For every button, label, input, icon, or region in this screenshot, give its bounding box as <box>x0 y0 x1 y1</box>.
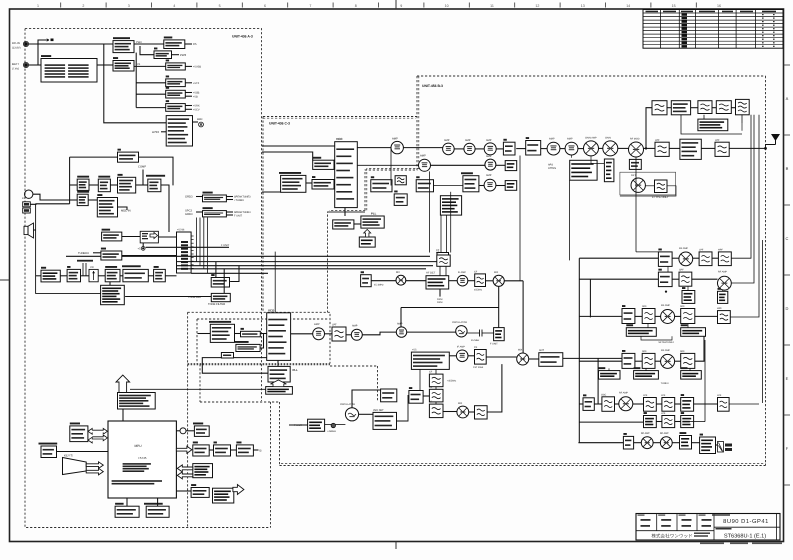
wire mpu-buzzer <box>176 430 180 432</box>
block ALC AMP <box>98 176 110 192</box>
svg-text:AMP: AMP <box>486 174 492 177</box>
svg-text:+TUNE3: +TUNE3 <box>234 199 244 202</box>
wire cfs12 <box>435 387 437 390</box>
arrow keys-mpu <box>86 462 103 475</box>
wire md2 loop <box>681 115 742 134</box>
junction antenna junction <box>764 147 767 150</box>
svg-text:45 MHz: 45 MHz <box>471 339 480 342</box>
svg-text:AMP: AMP <box>567 138 573 141</box>
wire mix-c7 <box>406 280 426 282</box>
filter r4 f1 <box>642 353 655 368</box>
svg-text:15: 15 <box>672 4 676 8</box>
block spd tune <box>394 191 407 206</box>
block Q107 buffer <box>416 176 433 192</box>
filter r1 f2 <box>718 252 731 266</box>
mix r2 rf amp <box>718 276 732 290</box>
wire r5b right link <box>689 421 705 423</box>
wire r4 c <box>675 360 681 362</box>
wire to DC-DC <box>134 43 164 45</box>
wire osc up <box>352 390 381 408</box>
svg-text:4: 4 <box>173 4 175 8</box>
block EEPROM <box>70 423 88 442</box>
filter ant lpf <box>715 142 729 156</box>
filter rx vco filt <box>332 327 346 341</box>
wire driver out <box>253 449 258 451</box>
svg-text:LPS3: LPS3 <box>152 130 159 134</box>
wire branch B <box>38 40 46 65</box>
svg-text:SPF: SPF <box>680 350 685 353</box>
det group rect <box>620 172 676 195</box>
wire tuned3 in <box>93 252 101 254</box>
block sample filter TX <box>279 172 306 192</box>
amp if amp2 <box>456 350 468 362</box>
wire bus 6 <box>191 272 268 274</box>
block low data clock RX <box>266 387 293 395</box>
block r1 sw <box>658 249 672 267</box>
block STEP ANALOG <box>214 442 231 457</box>
wire buzzer-spd <box>186 430 194 432</box>
wire X4 down <box>139 157 174 185</box>
amp TX amp 1 <box>391 141 403 153</box>
wire r6 d <box>692 442 700 444</box>
block Q101 <box>505 181 517 191</box>
wire sw-vco <box>333 183 336 185</box>
wire left audio vertical <box>69 157 71 204</box>
wire to Q714 <box>136 107 166 109</box>
wire r5b b <box>675 421 681 423</box>
wire r5b a <box>656 421 662 423</box>
wire BATT to charge <box>29 64 41 66</box>
svg-text:LPF: LPF <box>715 139 720 142</box>
wire s714 drop a <box>440 215 442 252</box>
LED symbol <box>199 122 204 127</box>
wire cfs23 <box>435 402 437 404</box>
block +5717 tone filter <box>211 293 230 301</box>
amp TX driver c <box>484 143 496 155</box>
block +5761 <box>154 266 166 282</box>
dashed RF unit top <box>417 75 766 77</box>
wire r1 b <box>693 257 699 259</box>
svg-text:PW3: PW3 <box>136 41 142 44</box>
wire dcamp2 in <box>196 211 203 213</box>
wire r5 g <box>729 403 759 405</box>
svg-text:MIX: MIX <box>518 349 523 352</box>
block MUTE SW <box>77 176 89 191</box>
wire vco-amp <box>291 333 313 335</box>
svg-text:+5CV: +5CV <box>193 109 200 112</box>
block ALC det <box>570 160 597 180</box>
svg-text:AMP: AMP <box>465 139 471 142</box>
wire to Q710 <box>134 65 166 67</box>
wire in sf <box>198 333 211 335</box>
svg-text:CF: CF <box>474 346 478 349</box>
svg-text:45.1MHz: 45.1MHz <box>374 284 384 287</box>
wire alc-mod <box>110 184 117 186</box>
wire lcd-step <box>209 449 213 451</box>
wire f4 down <box>741 115 743 123</box>
wire 5716 out <box>230 266 239 282</box>
wire r5 a <box>594 403 602 405</box>
wire pwr-amp <box>148 275 153 277</box>
svg-text:BATT: BATT <box>12 62 19 66</box>
wire r4 b <box>655 360 661 362</box>
wire bus 3 <box>177 261 441 263</box>
wire lim-mic <box>88 199 97 201</box>
block MOD IC <box>118 174 136 193</box>
wire det up <box>396 395 408 421</box>
svg-text:9: 9 <box>400 4 402 8</box>
wire tx-if drop a <box>429 171 431 252</box>
svg-text:AMP: AMP <box>486 155 492 158</box>
block r5b d <box>681 412 694 428</box>
filter r3 lpf <box>718 311 731 324</box>
wire r1 feed <box>579 257 658 259</box>
wire amp-ic <box>165 275 176 277</box>
wire mod-pre <box>136 184 148 186</box>
wire dcamp1 out b <box>226 199 233 201</box>
svg-text:1ST 455k: 1ST 455k <box>473 366 484 369</box>
amp TX amp 4 <box>485 159 496 170</box>
amp TX driver b <box>464 143 475 154</box>
svg-text:COMP: COMP <box>138 166 146 169</box>
wire bus to 5717 <box>223 269 225 294</box>
amp rx vco amp <box>313 328 325 340</box>
block apc small <box>604 159 614 182</box>
filter det lpf <box>655 180 668 193</box>
wire tone alk in <box>125 296 211 298</box>
mix mix 2nd feed <box>493 275 504 286</box>
svg-text:+455kHz: +455kHz <box>447 379 457 382</box>
wire ic-cfs1 <box>435 369 437 374</box>
wire r3 a <box>635 315 642 317</box>
svg-text:MDE-IN: MDE-IN <box>121 210 131 213</box>
wire c7-ifamp <box>449 280 458 282</box>
svg-text:+5B: +5B <box>193 95 198 98</box>
wire det-lpf <box>645 185 654 187</box>
svg-text:C: C <box>786 236 789 241</box>
wire jack <box>30 203 69 206</box>
wire ifamp2-cf3 <box>468 355 475 357</box>
wire feeder 3 <box>730 115 759 317</box>
block AF note box <box>101 285 125 304</box>
cap sym2 <box>325 423 346 427</box>
svg-text:455kHz: 455kHz <box>474 289 483 292</box>
svg-text:+55: +55 <box>412 349 417 352</box>
mix mix 1st <box>396 275 406 285</box>
svg-text:RF AMP: RF AMP <box>679 247 688 250</box>
block gps note <box>698 119 728 131</box>
wire amp alc <box>571 155 573 158</box>
filter r5 lpf2 <box>662 398 675 412</box>
filter cf stack 2 <box>429 389 443 402</box>
wire r5 d <box>656 403 662 405</box>
wire vco-pll <box>344 208 346 216</box>
wire dcamp2 out a <box>226 211 233 213</box>
wire vco-amp1 <box>357 147 391 149</box>
wire speaker stub <box>34 229 36 231</box>
wire bus 4 <box>177 265 434 267</box>
block Q713 <box>166 87 186 98</box>
block r5 b1 <box>583 394 594 410</box>
svg-text:RF AMP: RF AMP <box>718 271 727 274</box>
wire md-pll <box>354 223 361 225</box>
speaker <box>24 223 34 238</box>
block LED control <box>166 116 192 146</box>
wire drv c-sw <box>496 148 505 150</box>
program note arrow <box>116 375 130 393</box>
svg-text:UNIT-456 B-3: UNIT-456 B-3 <box>422 84 443 88</box>
svg-text:RF AMP: RF AMP <box>661 349 670 352</box>
wire rx feed drop <box>519 156 521 281</box>
svg-text:12: 12 <box>535 4 539 8</box>
wire cfs3-mix4 <box>443 411 457 413</box>
dashed VCO inner top <box>197 318 329 320</box>
wire COMP <box>142 170 144 186</box>
mix det circle <box>631 178 645 192</box>
wire r4 t1 <box>608 368 610 370</box>
svg-text:TONE FILTER: TONE FILTER <box>208 303 225 306</box>
jack box 1 <box>23 202 31 207</box>
dashed step left <box>199 364 201 402</box>
block sw det small <box>629 159 641 169</box>
mix mix r1 <box>584 141 599 156</box>
wire mod-lpf <box>644 147 656 149</box>
svg-text:IF AMP: IF AMP <box>457 346 465 349</box>
wire +5 node <box>142 243 144 247</box>
junction BATT terminal <box>24 63 28 67</box>
wire cf3-mix <box>486 356 517 358</box>
wire Q710 out <box>185 65 192 67</box>
junction DC-IN terminal <box>24 42 28 46</box>
svg-text:+5TX: +5TX <box>193 82 200 85</box>
block low pass clock TX <box>359 237 375 247</box>
TX VCO block <box>335 142 358 208</box>
wire Q714 out b <box>185 108 192 110</box>
dashed F-unit left <box>279 402 281 466</box>
svg-text:MPU: MPU <box>134 444 142 448</box>
block PLL RX <box>268 366 290 382</box>
block det sw rx <box>381 389 397 402</box>
svg-text:ST6368U-1 (E.1): ST6368U-1 (E.1) <box>724 533 766 540</box>
dashed RF unit bottom inner <box>281 463 766 465</box>
svg-text:PW3: PW3 <box>180 53 187 57</box>
wire pre-emph down <box>161 185 169 232</box>
wire vr-mute <box>98 275 105 277</box>
uparrow clk RX <box>270 380 286 387</box>
wire vco feed vertical <box>274 252 276 312</box>
wire row3a <box>434 185 463 187</box>
svg-text:LPF: LPF <box>661 394 666 397</box>
mix mod r3 <box>629 142 644 157</box>
wire mix apc <box>591 156 604 164</box>
wire md6-vco <box>260 333 266 335</box>
mpu pin text <box>123 463 151 465</box>
svg-text:F UNIT: F UNIT <box>490 343 498 346</box>
block Q702 sub sw <box>113 57 134 71</box>
wire DCDC out <box>185 43 192 45</box>
microphone <box>25 190 33 198</box>
block MD2 pa <box>671 101 690 115</box>
antenna <box>766 134 781 148</box>
filter cf3 rx <box>475 350 487 365</box>
wire r2 d <box>722 290 724 291</box>
dbl arrow eeprom <box>88 428 107 443</box>
wire feeder 1 <box>731 115 751 258</box>
block Q710 5V SB <box>166 60 186 71</box>
wire LED out <box>193 121 199 123</box>
block XT1 <box>361 271 372 286</box>
dashed RF unit right <box>765 76 767 466</box>
wire mix-c16 <box>529 358 539 360</box>
block S714 signal list <box>440 196 461 215</box>
wire bus 2b <box>122 255 430 257</box>
svg-text:CF: CF <box>474 271 478 274</box>
wire 5V out <box>172 54 180 56</box>
wire to 5V reg <box>140 46 154 55</box>
+5 ring <box>141 247 145 251</box>
wire stack feed vertical <box>135 53 137 108</box>
filter r3 f1 <box>642 309 655 324</box>
wire f2-f3 <box>712 107 716 109</box>
block r6 tune lpf <box>680 432 692 449</box>
wire filt-ampm <box>346 334 351 336</box>
block r2 sw <box>658 269 672 287</box>
block Q712 <box>166 76 186 87</box>
block LIMITER <box>77 191 89 206</box>
svg-text:PLL: PLL <box>293 368 299 372</box>
dashed unit C-3 top <box>263 116 417 118</box>
wire vco-amp2 <box>357 164 418 166</box>
svg-text:F UNIT: F UNIT <box>221 244 230 247</box>
title block <box>636 514 782 545</box>
svg-text:B: B <box>786 166 789 171</box>
wire r4 feed <box>579 360 622 362</box>
wire alc drop <box>569 180 571 260</box>
svg-text:(7.4V): (7.4V) <box>12 68 19 71</box>
wire amp1 out <box>403 147 442 149</box>
filter tx lpf main <box>655 142 669 156</box>
wire v-det <box>36 275 41 277</box>
block rx md small <box>221 353 233 359</box>
mix mix r2 <box>603 141 618 156</box>
svg-text:AMP: AMP <box>420 155 426 158</box>
wire stub2 <box>522 352 524 354</box>
wire tune link <box>641 336 672 340</box>
wire tone-ic <box>122 255 177 257</box>
svg-text:OSCILLATOR: OSCILLATOR <box>340 403 355 406</box>
filter cf2 rx <box>475 274 486 287</box>
dashed unit A-3 left/bottom <box>25 29 271 528</box>
wire r2 feed <box>579 278 658 280</box>
dashed VCO box bottom thick <box>188 363 330 365</box>
wire tx chain feed <box>646 108 652 148</box>
block DET discri <box>41 267 60 282</box>
wire f3-f4 <box>731 107 735 109</box>
cap sym1 <box>467 330 494 337</box>
dashed VCO box top/right <box>188 312 330 363</box>
wire r5b feed <box>579 421 643 423</box>
svg-text:LPF: LPF <box>699 248 704 251</box>
BATT terminal ring <box>23 62 28 67</box>
svg-text:4 TYPE ONLY: 4 TYPE ONLY <box>652 196 669 199</box>
wire to Q712 <box>136 82 166 84</box>
wire xt-mix <box>371 280 396 282</box>
block +5715 driver <box>236 442 253 457</box>
wire unit in 3 <box>262 152 313 160</box>
block tx sw in <box>503 139 515 155</box>
block DC AMP 2 <box>203 207 227 217</box>
wire right bus 579 <box>578 258 580 443</box>
filter r3 f2 <box>681 309 695 324</box>
block main power sw <box>113 37 134 52</box>
wire r1 c <box>712 257 718 259</box>
wire shift-vco <box>260 334 263 348</box>
block sw d30 <box>409 387 423 403</box>
block TX-BUSY LED <box>39 443 58 458</box>
block tx box2 <box>526 137 541 155</box>
dashed seg short vertical <box>377 366 379 402</box>
wire feeder twin <box>762 240 764 403</box>
wire md2-f2 <box>691 107 698 109</box>
wire r4 t3 <box>689 368 691 370</box>
block md6 ic <box>241 328 261 337</box>
wire row2b <box>496 164 505 166</box>
wire r3 d <box>695 315 718 317</box>
block tune d06 <box>308 419 325 431</box>
svg-text:2: 2 <box>82 4 84 8</box>
svg-text:ATTEN: ATTEN <box>548 167 556 170</box>
block r5 d <box>681 394 694 411</box>
wire md1-lpf <box>701 147 715 149</box>
wire r5 f <box>694 403 718 405</box>
wire mpu-5711 <box>176 490 191 492</box>
block r4 tune c <box>681 367 702 379</box>
block Q746 buffer <box>371 176 392 192</box>
wire bus to 5716 <box>215 262 217 278</box>
mix r3 rf amp <box>661 310 675 324</box>
RX VCO block <box>267 313 291 361</box>
svg-text:LPF: LPF <box>717 394 722 397</box>
MPU block <box>108 421 176 498</box>
block SPD driver <box>193 423 209 437</box>
wire cf drop b <box>445 266 447 276</box>
filter r5 far lpf <box>718 398 730 412</box>
svg-text:CF: CF <box>429 371 433 374</box>
mix r6 det2 <box>660 437 672 449</box>
block LED indicator box <box>193 464 213 478</box>
svg-text:AMP: AMP <box>486 139 492 142</box>
svg-text:B: B <box>260 448 262 452</box>
amp TX amp 3 <box>484 179 496 191</box>
svg-text:UNIT-436 A-3: UNIT-436 A-3 <box>232 35 253 39</box>
block +C7 IF det <box>426 276 449 289</box>
svg-text:TUNED3: TUNED3 <box>78 252 89 255</box>
block BL signal list <box>213 488 234 503</box>
wire dem stub <box>439 289 441 297</box>
wire ifamp-cf2 <box>468 280 475 282</box>
block Q764 <box>105 266 120 282</box>
svg-text:+5SB: +5SB <box>193 92 200 95</box>
wire mute-pwr <box>120 275 123 277</box>
svg-text:DC-IN: DC-IN <box>12 41 20 45</box>
wire mic out <box>118 207 128 210</box>
block 2nd det <box>373 412 397 429</box>
filter r4 f2 <box>681 353 695 368</box>
svg-text:AMP: AMP <box>444 139 450 142</box>
amp rx vco amp2 <box>396 327 406 337</box>
DC-IN terminal ring <box>23 41 28 46</box>
block r2 md3 <box>682 287 695 303</box>
